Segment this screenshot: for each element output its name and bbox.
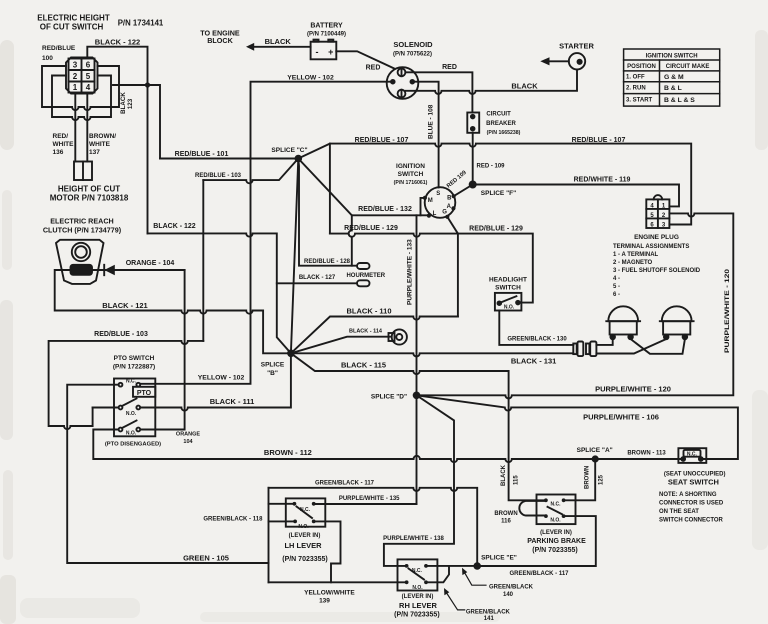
- ignition switch SW1 body: [425, 187, 456, 218]
- svg-text:B: B: [447, 196, 452, 202]
- svg-text:ENGINE PLUG: ENGINE PLUG: [634, 234, 679, 241]
- svg-text:125: 125: [599, 474, 605, 485]
- wire lamp feed upper: [596, 339, 612, 345]
- svg-text:BROWN/: BROWN/: [89, 133, 116, 140]
- svg-text:P/N 1734141: P/N 1734141: [118, 18, 164, 27]
- svg-text:BROWN - 112: BROWN - 112: [264, 448, 312, 457]
- wire BLACK starter to solenoid bottom terminal: [406, 70, 577, 94]
- svg-text:(P/N 7023355): (P/N 7023355): [394, 612, 440, 619]
- label YELLOW/WHITE 139: [304, 590, 355, 605]
- svg-text:HEIGHT OF CUT: HEIGHT OF CUT: [58, 184, 120, 193]
- motor M1 height of cut motor connector: [74, 162, 92, 181]
- svg-text:PURPLE/WHITE - 120: PURPLE/WHITE - 120: [595, 385, 671, 394]
- label ignition switch: [394, 163, 428, 186]
- svg-text:123: 123: [127, 98, 134, 109]
- svg-text:RED: RED: [442, 64, 457, 71]
- seat switch S6 box: [678, 448, 706, 463]
- svg-text:BREAKER: BREAKER: [486, 121, 516, 127]
- svg-text:PTO SWITCH: PTO SWITCH: [114, 355, 155, 362]
- svg-text:(LEVER IN): (LEVER IN): [289, 533, 321, 539]
- svg-text:SPLICE "D": SPLICE "D": [371, 394, 407, 401]
- starter M2: [569, 53, 585, 69]
- svg-text:MOTOR P/N 7103818: MOTOR P/N 7103818: [50, 193, 129, 202]
- svg-text:N.C.: N.C.: [687, 452, 698, 458]
- wire GREEN/BLACK-117 riser run to splice E: [269, 488, 478, 566]
- svg-text:N.C.: N.C.: [551, 502, 562, 508]
- connector J1 pin grid: [69, 59, 95, 93]
- svg-text:N.C.: N.C.: [412, 568, 423, 574]
- svg-text:N.C.: N.C.: [126, 379, 137, 385]
- svg-text:TERMINAL ASSIGNMENTS: TERMINAL ASSIGNMENTS: [613, 244, 689, 250]
- wire RED/BLUE-132 bracket to ignition M terminal: [421, 198, 425, 215]
- svg-text:BROWN: BROWN: [494, 511, 517, 517]
- wire ELECTRIC REACH CLUTCH lead left / BLACK-121: [55, 270, 291, 353]
- svg-text:N.O.: N.O.: [504, 304, 515, 310]
- svg-text:BLACK: BLACK: [120, 92, 127, 114]
- svg-text:S: S: [436, 191, 440, 197]
- wire RED/BLUE riser 107 to 129: [329, 144, 331, 234]
- svg-text:115: 115: [514, 475, 520, 485]
- wire BLACK-131 from splice B to headlight connectors: [291, 353, 573, 356]
- ring terminal T1: [389, 333, 395, 341]
- wire BLACK-123 branch with junction to red/blue riser: [113, 85, 160, 159]
- label BROWN/WHITE 137: [89, 133, 116, 156]
- svg-text:WHITE: WHITE: [53, 141, 75, 148]
- svg-text:N.O.: N.O.: [550, 518, 561, 524]
- RH lever contact labels: [412, 568, 423, 591]
- svg-text:IGNITION: IGNITION: [396, 163, 425, 170]
- wire YELLOW/WHITE-139 LH lever to RH lever: [316, 521, 341, 582]
- svg-text:SWITCH CONNECTOR: SWITCH CONNECTOR: [659, 518, 724, 524]
- wire RED/BLUE-128 drop from splice C to hourmeter: [298, 159, 357, 266]
- svg-text:BLACK: BLACK: [501, 464, 507, 486]
- svg-text:SPLICE: SPLICE: [261, 362, 285, 369]
- svg-text:BLUE - 108: BLUE - 108: [428, 104, 435, 139]
- svg-text:GREEN/BLACK: GREEN/BLACK: [489, 585, 534, 591]
- wire RED/BLUE-132 drop to hourmeter feed: [349, 215, 352, 265]
- engine plug P1 top cap: [654, 195, 663, 199]
- svg-text:YELLOW - 102: YELLOW - 102: [198, 375, 245, 382]
- arrow to engine block: [246, 43, 254, 51]
- parking brake contact labels: [550, 502, 561, 524]
- label ORANGE 104 small: [176, 432, 200, 446]
- label height of cut motor: [50, 184, 129, 202]
- svg-text:BLACK - 110: BLACK - 110: [346, 307, 391, 316]
- svg-text:5 -: 5 -: [613, 284, 620, 290]
- svg-text:1: 1: [73, 83, 78, 92]
- label PTO switch: [113, 355, 155, 371]
- splice A node: [592, 455, 599, 462]
- svg-text:SPLICE "F": SPLICE "F": [481, 190, 516, 197]
- solenoid K1 large terminal top: [398, 68, 406, 76]
- svg-text:OF CUT SWITCH: OF CUT SWITCH: [40, 22, 104, 31]
- svg-text:RED/BLUE - 107: RED/BLUE - 107: [355, 137, 409, 144]
- wire motor pin drop 1: [74, 94, 76, 162]
- label electric reach clutch: [43, 217, 122, 235]
- svg-text:BLACK - 111: BLACK - 111: [210, 397, 255, 406]
- wire motor pin drop 2: [86, 94, 88, 162]
- svg-text:CONNECTOR IS USED: CONNECTOR IS USED: [659, 501, 724, 507]
- wire riser green/black left: [268, 488, 270, 583]
- svg-text:PURPLE/WHITE - 135: PURPLE/WHITE - 135: [339, 496, 400, 502]
- label RED/WHITE 136: [53, 133, 75, 156]
- svg-text:RED/BLUE - 129: RED/BLUE - 129: [344, 225, 398, 232]
- svg-text:(P/N 7075622): (P/N 7075622): [393, 52, 432, 58]
- label solenoid: [393, 40, 433, 58]
- label RH lever: [394, 594, 440, 619]
- label terminal assignments: [613, 244, 701, 298]
- svg-text:RED/BLUE - 101: RED/BLUE - 101: [175, 151, 229, 158]
- label electric height of cut switch: [37, 13, 164, 31]
- wire BLACK-110 riser to ignition G: [457, 234, 459, 317]
- label RED/BLUE 100: [42, 45, 76, 62]
- svg-text:PURPLE/WHITE - 106: PURPLE/WHITE - 106: [583, 412, 659, 421]
- wire GREEN/BLACK-118 into LH lever: [269, 520, 294, 522]
- label seat switch: [664, 472, 726, 487]
- svg-text:5: 5: [86, 72, 91, 81]
- wire RED/BLUE-103 riser: [202, 180, 204, 341]
- svg-text:N.C.: N.C.: [300, 507, 311, 513]
- svg-text:PURPLE/WHITE - 138: PURPLE/WHITE - 138: [383, 536, 444, 542]
- wire loop 2 left of connector (pin row 2): [52, 76, 111, 121]
- LH lever contact labels: [298, 507, 310, 530]
- svg-text:L: L: [433, 211, 437, 217]
- wire RED/BLUE-132 splice C to ignition M: [298, 159, 428, 216]
- svg-text:M: M: [428, 198, 433, 204]
- splice F node: [469, 181, 477, 189]
- battery polarity: [316, 47, 334, 57]
- wire RED/BLUE-101 to splice C: [160, 158, 298, 160]
- splice D node: [413, 392, 421, 400]
- solenoid K1 large terminal bottom: [398, 90, 406, 98]
- wire RED-109 splice F to ignition B terminal: [454, 185, 473, 197]
- splice B node: [287, 350, 295, 358]
- svg-text:BATTERY: BATTERY: [310, 23, 343, 30]
- svg-text:1 - A TERMINAL: 1 - A TERMINAL: [613, 252, 659, 258]
- LH lever switch S3 box: [286, 498, 326, 526]
- svg-text:BROWN: BROWN: [585, 466, 591, 489]
- svg-text:BLACK: BLACK: [511, 82, 538, 91]
- svg-text:4 -: 4 -: [613, 276, 620, 282]
- svg-text:PURPLE/WHITE - 133: PURPLE/WHITE - 133: [407, 239, 414, 305]
- wire BLACK-110 from splice B: [291, 317, 458, 354]
- wire RED/WHITE-119 splice F to engine plug pin 1: [473, 185, 679, 207]
- svg-text:SOLENOID: SOLENOID: [393, 40, 433, 49]
- wire starter lead with arrow: [549, 60, 569, 62]
- svg-text:ELECTRIC REACH: ELECTRIC REACH: [50, 217, 114, 226]
- svg-text:100: 100: [42, 55, 53, 62]
- label GREEN/BLACK 140: [489, 585, 534, 598]
- svg-text:BLACK - 127: BLACK - 127: [299, 275, 336, 281]
- headlight connector CN2: [586, 344, 589, 355]
- wire BLACK-115 from splice B to parking brake: [291, 353, 544, 500]
- svg-text:RED/BLUE - 128: RED/BLUE - 128: [304, 259, 351, 265]
- headlight connector CN1: [573, 344, 576, 355]
- clutch CL1 terminal block: [71, 265, 93, 275]
- svg-text:HEADLIGHT: HEADLIGHT: [489, 277, 527, 284]
- svg-text:2 - MAGNETO: 2 - MAGNETO: [613, 260, 653, 266]
- label BROWN 125 vertical: [585, 466, 605, 489]
- svg-text:2: 2: [73, 72, 78, 81]
- svg-text:IGNITION SWITCH: IGNITION SWITCH: [646, 53, 698, 59]
- wire RED battery positive to solenoid: [336, 51, 394, 68]
- svg-text:RED/BLUE: RED/BLUE: [42, 45, 76, 52]
- wire lamp1 to lamp2 link: [631, 339, 685, 354]
- lamp L1 headlight: [606, 306, 640, 339]
- svg-text:SWITCH: SWITCH: [398, 171, 424, 178]
- wire PURPLE/WHITE-133 ignition to splice D: [416, 215, 418, 504]
- svg-text:B & L: B & L: [664, 85, 682, 92]
- svg-text:3. START: 3. START: [626, 98, 653, 104]
- svg-text:6 -: 6 -: [613, 292, 620, 298]
- PTO switch blades: [122, 399, 137, 407]
- diode D1: [103, 265, 105, 275]
- PTO switch pins: [119, 383, 141, 432]
- wire RED solenoid to circuit breaker: [405, 72, 472, 112]
- label battery: [307, 23, 346, 38]
- svg-text:BLACK - 131: BLACK - 131: [511, 357, 556, 366]
- clutch CL1 electric reach clutch body: [56, 240, 104, 284]
- wire BROWN-116 loop: [519, 501, 546, 516]
- svg-text:(PTO DISENGAGED): (PTO DISENGAGED): [105, 442, 161, 448]
- label headlight switch: [489, 277, 527, 292]
- svg-text:SWITCH: SWITCH: [495, 285, 521, 292]
- svg-text:WHITE: WHITE: [89, 141, 111, 148]
- svg-text:(LEVER IN): (LEVER IN): [402, 594, 434, 600]
- connector J1 electric height of cut switch (octagon shell): [66, 58, 98, 94]
- wire PURPLE/WHITE-106 splice D to seat switch: [417, 395, 738, 459]
- battery B1 box: [311, 42, 337, 60]
- svg-text:BROWN - 113: BROWN - 113: [627, 450, 666, 456]
- wire lamp feed lower crossing: [596, 339, 666, 354]
- wire splice C to splice B: [291, 159, 298, 354]
- svg-text:(P/N 1722887): (P/N 1722887): [113, 364, 155, 371]
- svg-text:ELECTRIC HEIGHT: ELECTRIC HEIGHT: [37, 13, 110, 22]
- svg-text:GREEN/BLACK - 118: GREEN/BLACK - 118: [203, 516, 263, 522]
- wire BLACK battery negative to engine block: [253, 46, 311, 48]
- wire PTO middle-left pin to red/blue-103: [93, 407, 119, 409]
- lamp L2 headlight: [660, 306, 694, 339]
- svg-text:BLACK - 121: BLACK - 121: [102, 301, 147, 310]
- svg-text:ORANGE: ORANGE: [176, 432, 200, 438]
- svg-text:140: 140: [503, 592, 514, 598]
- wire PURPLE/WHITE-138 splice D to RH lever: [384, 395, 454, 566]
- wire RH N.C. to splice E: [428, 565, 475, 567]
- svg-text:BLACK - 122: BLACK - 122: [95, 38, 140, 47]
- svg-text:YELLOW/WHITE: YELLOW/WHITE: [304, 590, 355, 597]
- label to engine block: [200, 29, 240, 46]
- label parking brake: [527, 530, 586, 554]
- wire RED/BLUE-103 upper run from riser to splice C: [203, 159, 298, 184]
- label seat note: [659, 492, 724, 524]
- wire RED-109 breaker to splice F: [472, 133, 474, 185]
- splice C node: [295, 155, 303, 163]
- svg-text:SEAT SWITCH: SEAT SWITCH: [668, 477, 719, 486]
- svg-text:6: 6: [86, 60, 91, 69]
- svg-text:GREEN/BLACK - 130: GREEN/BLACK - 130: [507, 336, 567, 342]
- svg-text:4: 4: [86, 83, 91, 92]
- wire RH N.O. jog up: [428, 567, 449, 583]
- svg-text:-: -: [316, 47, 319, 57]
- ignition terminal dots: [423, 194, 456, 219]
- wire BLACK-122 from connector top to right column and down to splice B: [87, 47, 147, 234]
- svg-text:CIRCUIT: CIRCUIT: [486, 111, 511, 117]
- svg-text:N.O.: N.O.: [126, 431, 137, 437]
- svg-text:A: A: [447, 204, 452, 210]
- svg-text:BLACK - 115: BLACK - 115: [341, 361, 386, 370]
- svg-text:SPLICE "A": SPLICE "A": [577, 447, 613, 454]
- wire BLUE-108 solenoid pin to ignition S: [412, 82, 438, 188]
- PTO label frame: [133, 387, 155, 397]
- wire PURPLE/WHITE-120 engine plug pin 2 to splice D: [417, 213, 734, 398]
- svg-text:RED/BLUE - 103: RED/BLUE - 103: [195, 173, 242, 179]
- label splice B: [261, 362, 285, 378]
- svg-text:POSITION: POSITION: [627, 64, 656, 70]
- svg-text:N.O.: N.O.: [298, 524, 309, 530]
- svg-text:(P/N 1716061): (P/N 1716061): [394, 180, 428, 186]
- svg-text:RED/: RED/: [53, 133, 69, 140]
- label GREEN/BLACK 141: [466, 610, 511, 622]
- svg-text:SPLICE "E": SPLICE "E": [481, 555, 517, 562]
- svg-text:(P/N 7023355): (P/N 7023355): [532, 547, 578, 554]
- svg-text:G & M: G & M: [664, 74, 684, 81]
- svg-text:GREEN/BLACK - 117: GREEN/BLACK - 117: [315, 480, 375, 486]
- svg-text:CIRCUIT MAKE: CIRCUIT MAKE: [666, 64, 710, 70]
- label BROWN 116: [494, 511, 517, 525]
- splice E node: [473, 562, 481, 570]
- wire BLACK-127 from splice B column to hourmeter: [277, 282, 357, 284]
- svg-text:3 - FUEL SHUTOFF SOLENOID: 3 - FUEL SHUTOFF SOLENOID: [613, 268, 701, 274]
- svg-text:139: 139: [319, 598, 330, 605]
- wire BROWN-125 splice A to parking brake: [566, 459, 596, 500]
- svg-text:YELLOW - 102: YELLOW - 102: [287, 75, 334, 82]
- label BLACK 115 vertical: [501, 464, 520, 486]
- hourmeter stub 1: [357, 263, 370, 269]
- svg-text:NOTE: A SHORTING: NOTE: A SHORTING: [659, 492, 717, 498]
- svg-text:BLACK - 114: BLACK - 114: [349, 328, 383, 334]
- wire YELLOW-102 from solenoid left pin down to PTO: [138, 82, 392, 384]
- wire RED/BLUE-103 lower run: [49, 341, 204, 429]
- svg-text:CLUTCH (P/N 1734779): CLUTCH (P/N 1734779): [43, 225, 122, 234]
- wire BROWN-112 stub from PTO bottom-left pin: [93, 430, 413, 460]
- wire loop 1 left of connector (pin row 1): [42, 66, 119, 110]
- callout arrow GREEN/BLACK-141: [446, 593, 464, 610]
- svg-text:STARTER: STARTER: [559, 42, 594, 51]
- headlight switch S2 box: [495, 293, 522, 311]
- svg-text:141: 141: [484, 616, 495, 622]
- svg-text:RED - 109: RED - 109: [476, 164, 505, 170]
- svg-text:RED/BLUE - 129: RED/BLUE - 129: [469, 226, 523, 233]
- svg-text:BLOCK: BLOCK: [207, 36, 233, 45]
- svg-text:LH LEVER: LH LEVER: [284, 541, 322, 550]
- svg-text:RED/BLUE - 103: RED/BLUE - 103: [94, 331, 148, 338]
- svg-text:1. OFF: 1. OFF: [626, 75, 645, 81]
- solenoid K1 small pins: [391, 80, 395, 84]
- svg-text:GREEN/BLACK - 117: GREEN/BLACK - 117: [509, 571, 569, 577]
- ignition table texts: [626, 53, 709, 104]
- wire headlight feed GREEN/BLACK-130: [499, 311, 573, 345]
- svg-text:116: 116: [501, 519, 511, 525]
- svg-text:3: 3: [73, 60, 78, 69]
- hourmeter stub 2: [357, 280, 370, 286]
- svg-text:RED/BLUE - 107: RED/BLUE - 107: [572, 137, 626, 144]
- svg-text:RED/WHITE - 119: RED/WHITE - 119: [574, 177, 631, 184]
- wire BROWN-112/113 main run to seat switch: [414, 456, 682, 462]
- svg-text:ORANGE - 104: ORANGE - 104: [126, 260, 175, 267]
- wire BLACK-111 from PTO middle-right pin to splice B riser: [140, 353, 291, 410]
- wire GREEN-105 riser from PTO top-left pin: [67, 385, 268, 563]
- svg-text:(P/N 1665238): (P/N 1665238): [487, 130, 521, 136]
- PTO switch S1 box: [114, 379, 155, 437]
- svg-text:(P/N 7100449): (P/N 7100449): [307, 32, 346, 38]
- svg-text:(P/N 7023355): (P/N 7023355): [282, 556, 328, 563]
- svg-text:PARKING BRAKE: PARKING BRAKE: [527, 538, 586, 545]
- node junction on black-122 column: [145, 82, 150, 87]
- RH lever switch S4 box: [398, 559, 438, 590]
- svg-text:(LEVER IN): (LEVER IN): [540, 530, 572, 536]
- wire branch riser to LH N.C. pin: [269, 503, 294, 505]
- svg-text:N.O.: N.O.: [412, 585, 423, 591]
- solenoid K1 body: [387, 67, 419, 99]
- label LH lever: [282, 533, 328, 563]
- wire BLACK-114 from splice B to ring terminal: [291, 337, 390, 354]
- svg-text:104: 104: [183, 439, 193, 445]
- svg-text:BLACK - 122: BLACK - 122: [153, 223, 196, 230]
- svg-text:137: 137: [89, 149, 100, 156]
- svg-text:SPLICE "C": SPLICE "C": [271, 147, 307, 154]
- svg-text:HOURMETER: HOURMETER: [346, 273, 385, 279]
- svg-text:2. RUN: 2. RUN: [626, 86, 646, 92]
- svg-text:N.O.: N.O.: [126, 411, 137, 417]
- svg-text:"B": "B": [267, 370, 278, 377]
- wire PURPLE/WHITE-135 LH lever to splice D: [316, 503, 417, 505]
- svg-text:PURPLE/WHITE - 120: PURPLE/WHITE - 120: [724, 269, 731, 353]
- engine plug P1 box: [646, 199, 669, 228]
- svg-text:+: +: [328, 47, 333, 57]
- circuit breaker CB1 box: [467, 113, 479, 133]
- svg-text:PTO: PTO: [137, 390, 152, 397]
- wire ORANGE-104 from clutch through diode to PTO: [92, 269, 185, 271]
- callout arrow GREEN/BLACK-140: [465, 573, 487, 586]
- svg-text:RED: RED: [366, 65, 381, 72]
- label circuit breaker: [486, 111, 520, 136]
- svg-text:RH LEVER: RH LEVER: [399, 601, 438, 610]
- clutch CL1 ring: [72, 243, 90, 261]
- svg-text:RED/BLUE - 132: RED/BLUE - 132: [358, 206, 412, 213]
- parking brake switch S5 box: [537, 495, 576, 525]
- svg-text:136: 136: [53, 149, 64, 156]
- svg-text:ON THE SEAT: ON THE SEAT: [659, 509, 699, 515]
- svg-text:B & L & S: B & L & S: [664, 97, 695, 104]
- wire splice E to parking brake N.O.: [477, 516, 596, 566]
- ignition terminal letters: [428, 191, 452, 217]
- wire RED/BLUE-107 splice C to engine plug pin 3: [298, 144, 691, 225]
- svg-text:BLACK: BLACK: [265, 37, 292, 46]
- svg-text:G: G: [442, 210, 447, 216]
- PTO switch contact labels: [126, 379, 137, 437]
- label BLACK 123 vertical: [120, 92, 134, 114]
- wire RED/BLUE-129 run to ignition and headlight switch: [330, 217, 458, 237]
- svg-text:GREEN - 105: GREEN - 105: [183, 554, 229, 563]
- svg-text:GREEN/BLACK: GREEN/BLACK: [466, 610, 511, 616]
- connector J1 pin numbers: [73, 60, 91, 92]
- ignition switch table: [624, 49, 720, 106]
- engine plug pin numbers: [650, 203, 666, 228]
